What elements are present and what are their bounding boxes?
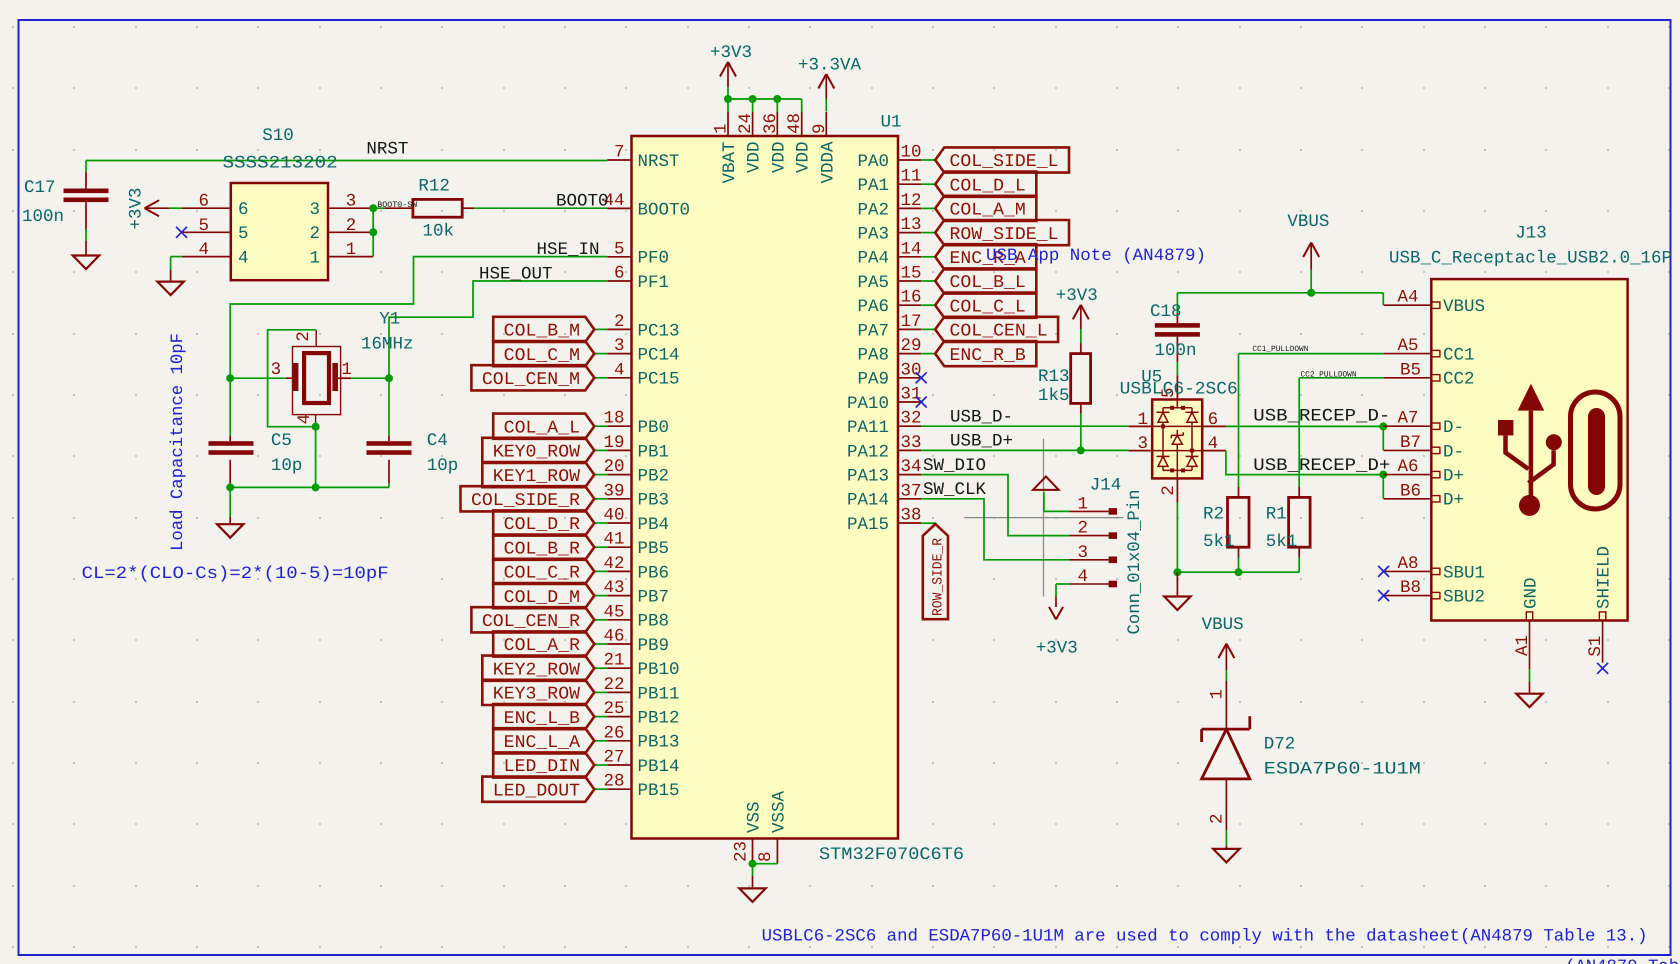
svg-text:KEY1_ROW: KEY1_ROW bbox=[493, 467, 581, 487]
svg-text:Y1: Y1 bbox=[379, 310, 400, 330]
svg-text:A1: A1 bbox=[1513, 635, 1533, 656]
svg-text:13: 13 bbox=[901, 215, 922, 235]
svg-text:PA15: PA15 bbox=[847, 515, 889, 535]
svg-text:COL_D_M: COL_D_M bbox=[504, 588, 580, 608]
svg-text:2: 2 bbox=[1159, 485, 1179, 496]
svg-text:PA14: PA14 bbox=[847, 491, 889, 511]
svg-text:S10: S10 bbox=[262, 126, 294, 146]
svg-text:1: 1 bbox=[341, 360, 352, 380]
svg-text:31: 31 bbox=[901, 385, 922, 405]
svg-text:VBAT: VBAT bbox=[720, 142, 740, 184]
svg-text:SHIELD: SHIELD bbox=[1595, 546, 1615, 609]
svg-text:CC2: CC2 bbox=[1443, 370, 1475, 390]
svg-text:KEY3_ROW: KEY3_ROW bbox=[493, 685, 581, 705]
svg-text:VBUS: VBUS bbox=[1443, 297, 1485, 317]
svg-text:R2: R2 bbox=[1203, 505, 1224, 525]
svg-text:COL_SIDE_L: COL_SIDE_L bbox=[950, 152, 1059, 172]
svg-text:D-: D- bbox=[1443, 418, 1464, 438]
svg-text:COL_C_R: COL_C_R bbox=[504, 564, 581, 584]
svg-text:VDDA: VDDA bbox=[818, 141, 838, 184]
svg-text:PA0: PA0 bbox=[857, 152, 889, 172]
svg-text:+3V3: +3V3 bbox=[1036, 639, 1078, 659]
svg-text:D72: D72 bbox=[1264, 735, 1296, 755]
svg-text:5k1: 5k1 bbox=[1203, 532, 1235, 552]
svg-text:PB9: PB9 bbox=[638, 636, 670, 656]
svg-text:48: 48 bbox=[785, 113, 805, 134]
svg-text:USB_RECEP_D-: USB_RECEP_D- bbox=[1253, 407, 1390, 427]
svg-text:PB10: PB10 bbox=[638, 660, 680, 680]
svg-text:PA1: PA1 bbox=[857, 176, 889, 196]
svg-text:A4: A4 bbox=[1398, 288, 1419, 308]
svg-text:5k1: 5k1 bbox=[1266, 532, 1298, 552]
svg-text:U1: U1 bbox=[881, 113, 902, 133]
svg-text:24: 24 bbox=[736, 113, 756, 134]
svg-text:PA4: PA4 bbox=[857, 249, 889, 269]
svg-text:4: 4 bbox=[1208, 434, 1219, 454]
svg-text:A7: A7 bbox=[1398, 409, 1419, 429]
svg-text:2: 2 bbox=[346, 216, 357, 236]
svg-text:2: 2 bbox=[1077, 519, 1088, 539]
svg-text:PF1: PF1 bbox=[638, 273, 670, 293]
svg-text:4: 4 bbox=[198, 240, 209, 260]
svg-text:Load Capacitance 10pF: Load Capacitance 10pF bbox=[169, 333, 188, 551]
svg-text:USBLC6-2SC6 and ESDA7P60-1U1M: USBLC6-2SC6 and ESDA7P60-1U1M are used t… bbox=[762, 928, 1648, 947]
svg-text:SSSS213202: SSSS213202 bbox=[223, 154, 338, 174]
svg-text:10p: 10p bbox=[427, 456, 459, 476]
svg-text:COL_D_R: COL_D_R bbox=[504, 515, 581, 535]
svg-text:USB_RECEP_D+: USB_RECEP_D+ bbox=[1253, 456, 1390, 476]
svg-text:PA11: PA11 bbox=[847, 418, 889, 438]
svg-text:KEY0_ROW: KEY0_ROW bbox=[493, 443, 581, 463]
svg-text:CC1: CC1 bbox=[1443, 346, 1475, 366]
svg-text:2: 2 bbox=[294, 331, 314, 342]
svg-text:KEY2_ROW: KEY2_ROW bbox=[493, 660, 581, 680]
svg-text:PB15: PB15 bbox=[638, 781, 680, 801]
svg-text:C4: C4 bbox=[427, 431, 448, 451]
svg-text:VDD: VDD bbox=[794, 142, 814, 174]
svg-text:PB6: PB6 bbox=[638, 563, 670, 583]
svg-text:COL_CEN_M: COL_CEN_M bbox=[482, 370, 580, 390]
svg-text:PC15: PC15 bbox=[638, 370, 680, 390]
svg-text:PA8: PA8 bbox=[857, 346, 889, 366]
svg-text:PB11: PB11 bbox=[638, 684, 680, 704]
svg-text:100n: 100n bbox=[22, 207, 64, 227]
svg-text:+3V3: +3V3 bbox=[1056, 286, 1098, 306]
svg-text:VBUS: VBUS bbox=[1202, 615, 1244, 635]
svg-text:Conn_01x04_Pin: Conn_01x04_Pin bbox=[1125, 490, 1145, 635]
svg-text:38: 38 bbox=[901, 506, 922, 526]
svg-text:B8: B8 bbox=[1400, 578, 1421, 598]
svg-text:A6: A6 bbox=[1398, 457, 1419, 477]
svg-text:B5: B5 bbox=[1400, 360, 1421, 380]
svg-text:PA6: PA6 bbox=[857, 297, 889, 317]
svg-text:1: 1 bbox=[1207, 689, 1227, 700]
svg-text:R12: R12 bbox=[418, 177, 450, 197]
svg-text:PA13: PA13 bbox=[847, 467, 889, 487]
svg-text:C17: C17 bbox=[24, 178, 56, 198]
svg-text:VSS: VSS bbox=[745, 801, 765, 833]
svg-text:COL_B_M: COL_B_M bbox=[504, 322, 580, 342]
svg-text:SW_DIO: SW_DIO bbox=[923, 456, 986, 476]
svg-text:4: 4 bbox=[1077, 567, 1088, 587]
svg-text:J14: J14 bbox=[1090, 476, 1122, 496]
svg-text:+3V3: +3V3 bbox=[710, 43, 752, 63]
svg-text:33: 33 bbox=[901, 433, 922, 453]
svg-text:PA12: PA12 bbox=[847, 442, 889, 462]
svg-text:PB14: PB14 bbox=[638, 757, 680, 777]
svg-text:VBUS: VBUS bbox=[1287, 212, 1329, 232]
svg-text:HSE_OUT: HSE_OUT bbox=[479, 264, 553, 284]
svg-text:5: 5 bbox=[614, 239, 625, 259]
svg-text:COL_CEN_R: COL_CEN_R bbox=[482, 612, 580, 632]
svg-text:R1: R1 bbox=[1266, 505, 1287, 525]
svg-text:37: 37 bbox=[901, 481, 922, 501]
svg-text:PC13: PC13 bbox=[638, 321, 680, 341]
svg-text:PB2: PB2 bbox=[638, 467, 670, 487]
svg-text:COL_C_M: COL_C_M bbox=[504, 346, 580, 366]
svg-text:J13: J13 bbox=[1515, 224, 1547, 244]
svg-text:11: 11 bbox=[901, 167, 922, 187]
svg-text:PA7: PA7 bbox=[857, 321, 889, 341]
svg-text:10: 10 bbox=[901, 143, 922, 163]
svg-text:COL_A_R: COL_A_R bbox=[504, 636, 581, 656]
svg-text:COL_SIDE_R: COL_SIDE_R bbox=[471, 491, 580, 511]
svg-text:100n: 100n bbox=[1155, 341, 1197, 361]
svg-text:COL_C_L: COL_C_L bbox=[950, 297, 1026, 317]
svg-text:8: 8 bbox=[756, 851, 776, 862]
svg-text:SBU1: SBU1 bbox=[1443, 563, 1485, 583]
svg-text:+3.3VA: +3.3VA bbox=[798, 56, 862, 76]
svg-text:6: 6 bbox=[198, 192, 209, 212]
svg-text:3: 3 bbox=[271, 360, 282, 380]
svg-text:NRST: NRST bbox=[366, 140, 408, 160]
svg-text:1k5: 1k5 bbox=[1038, 386, 1070, 406]
svg-text:GND: GND bbox=[1522, 577, 1542, 609]
svg-text:+3V3: +3V3 bbox=[127, 187, 147, 229]
svg-text:4: 4 bbox=[295, 414, 315, 425]
svg-text:2: 2 bbox=[309, 224, 320, 244]
svg-text:COL_B_R: COL_B_R bbox=[504, 539, 581, 559]
svg-text:32: 32 bbox=[901, 409, 922, 429]
svg-text:USB_D+: USB_D+ bbox=[950, 432, 1013, 452]
svg-text:6: 6 bbox=[1208, 410, 1219, 430]
svg-text:NRST: NRST bbox=[638, 152, 680, 172]
svg-text:ENC_L_B: ENC_L_B bbox=[504, 709, 580, 729]
svg-text:ENC_L_A: ENC_L_A bbox=[504, 733, 581, 753]
svg-text:PB7: PB7 bbox=[638, 588, 670, 608]
svg-text:2: 2 bbox=[1207, 813, 1227, 824]
svg-text:4: 4 bbox=[614, 360, 625, 380]
svg-text:USB_D-: USB_D- bbox=[950, 407, 1013, 427]
svg-text:14: 14 bbox=[901, 239, 922, 259]
svg-text:VSSA: VSSA bbox=[769, 790, 789, 833]
svg-text:4: 4 bbox=[238, 249, 249, 269]
svg-text:7: 7 bbox=[614, 143, 625, 163]
svg-text:BOOT0: BOOT0 bbox=[638, 200, 691, 220]
svg-text:CC2_PULLDOWN: CC2_PULLDOWN bbox=[1301, 370, 1357, 379]
svg-text:36: 36 bbox=[761, 113, 781, 134]
svg-text:2: 2 bbox=[614, 312, 625, 332]
svg-text:6: 6 bbox=[238, 200, 249, 220]
svg-text:1: 1 bbox=[346, 240, 357, 260]
svg-text:1: 1 bbox=[1137, 410, 1148, 430]
svg-text:PB0: PB0 bbox=[638, 418, 670, 438]
svg-text:CC1_PULLDOWN: CC1_PULLDOWN bbox=[1252, 345, 1308, 354]
svg-text:A8: A8 bbox=[1398, 554, 1419, 574]
svg-text:1: 1 bbox=[1077, 494, 1088, 514]
svg-text:COL_B_L: COL_B_L bbox=[950, 273, 1026, 293]
svg-text:PB12: PB12 bbox=[638, 709, 680, 729]
svg-text:D-: D- bbox=[1443, 442, 1464, 462]
svg-text:D+: D+ bbox=[1443, 467, 1464, 487]
svg-text:COL_CEN_L: COL_CEN_L bbox=[950, 322, 1048, 342]
svg-text:16MHz: 16MHz bbox=[361, 335, 414, 355]
svg-text:3: 3 bbox=[346, 192, 357, 212]
svg-text:LED_DIN: LED_DIN bbox=[504, 757, 580, 777]
svg-text:5: 5 bbox=[198, 216, 209, 236]
svg-text:3: 3 bbox=[614, 336, 625, 356]
svg-text:5: 5 bbox=[238, 224, 249, 244]
svg-text:9: 9 bbox=[810, 123, 830, 134]
svg-text:PC14: PC14 bbox=[638, 346, 680, 366]
svg-text:PA3: PA3 bbox=[857, 225, 889, 245]
svg-text:1: 1 bbox=[309, 249, 320, 269]
svg-text:10p: 10p bbox=[271, 456, 303, 476]
svg-text:ROW_SIDE_L: ROW_SIDE_L bbox=[950, 225, 1059, 245]
svg-text:1: 1 bbox=[712, 123, 732, 134]
svg-text:USB_C_Receptacle_USB2.0_16P: USB_C_Receptacle_USB2.0_16P bbox=[1389, 249, 1672, 269]
svg-text:PB3: PB3 bbox=[638, 491, 670, 511]
svg-text:10k: 10k bbox=[423, 222, 455, 242]
svg-text:ESDA7P60-1U1M: ESDA7P60-1U1M bbox=[1264, 760, 1421, 780]
svg-text:3: 3 bbox=[309, 200, 320, 220]
svg-text:PB5: PB5 bbox=[638, 539, 670, 559]
svg-text:30: 30 bbox=[901, 360, 922, 380]
svg-text:USBLC6-2SC6: USBLC6-2SC6 bbox=[1120, 380, 1238, 400]
svg-text:17: 17 bbox=[901, 312, 922, 332]
svg-text:PF0: PF0 bbox=[638, 249, 670, 269]
svg-text:15: 15 bbox=[901, 264, 922, 284]
svg-text:C5: C5 bbox=[271, 431, 292, 451]
svg-text:ENC_R_B: ENC_R_B bbox=[950, 346, 1026, 366]
svg-text:PA10: PA10 bbox=[847, 394, 889, 414]
svg-text:S1: S1 bbox=[1586, 636, 1606, 657]
svg-text:BOOT0: BOOT0 bbox=[556, 192, 609, 212]
svg-text:B7: B7 bbox=[1400, 433, 1421, 453]
svg-text:COL_A_M: COL_A_M bbox=[950, 201, 1026, 221]
svg-text:16: 16 bbox=[901, 288, 922, 308]
svg-text:PB1: PB1 bbox=[638, 442, 670, 462]
svg-text:(AN4879 Tab): (AN4879 Tab) bbox=[1565, 958, 1680, 964]
svg-text:3: 3 bbox=[1137, 434, 1148, 454]
svg-text:USB App Note (AN4879): USB App Note (AN4879) bbox=[986, 247, 1206, 266]
svg-text:C18: C18 bbox=[1150, 302, 1182, 322]
svg-text:12: 12 bbox=[901, 191, 922, 211]
svg-text:PA9: PA9 bbox=[857, 370, 889, 390]
svg-text:6: 6 bbox=[614, 264, 625, 284]
svg-text:PA5: PA5 bbox=[857, 273, 889, 293]
svg-text:PA2: PA2 bbox=[857, 200, 889, 220]
svg-text:23: 23 bbox=[731, 841, 751, 862]
svg-text:LED_DOUT: LED_DOUT bbox=[493, 781, 580, 801]
svg-text:VDD: VDD bbox=[769, 142, 789, 174]
svg-text:3: 3 bbox=[1077, 543, 1088, 563]
svg-text:SBU2: SBU2 bbox=[1443, 588, 1485, 608]
svg-text:SW_CLK: SW_CLK bbox=[923, 480, 987, 500]
svg-text:B6: B6 bbox=[1400, 481, 1421, 501]
svg-text:VDD: VDD bbox=[745, 142, 765, 174]
svg-text:PB13: PB13 bbox=[638, 733, 680, 753]
svg-text:HSE_IN: HSE_IN bbox=[536, 240, 599, 260]
svg-text:PB8: PB8 bbox=[638, 612, 670, 632]
svg-text:R13: R13 bbox=[1038, 367, 1070, 387]
svg-text:PB4: PB4 bbox=[638, 515, 670, 535]
svg-text:CL=2*(CLO-Cs)=2*(10-5)=10pF: CL=2*(CLO-Cs)=2*(10-5)=10pF bbox=[82, 565, 389, 584]
svg-text:34: 34 bbox=[901, 457, 922, 477]
svg-text:D+: D+ bbox=[1443, 491, 1464, 511]
svg-text:STM32F070C6T6: STM32F070C6T6 bbox=[819, 845, 964, 865]
svg-text:ROW_SIDE_R: ROW_SIDE_R bbox=[931, 537, 947, 616]
svg-text:BOOT0-SW: BOOT0-SW bbox=[377, 201, 417, 210]
svg-text:COL_A_L: COL_A_L bbox=[504, 418, 580, 438]
svg-text:A5: A5 bbox=[1398, 336, 1419, 356]
svg-text:COL_D_L: COL_D_L bbox=[950, 176, 1026, 196]
svg-text:29: 29 bbox=[901, 336, 922, 356]
